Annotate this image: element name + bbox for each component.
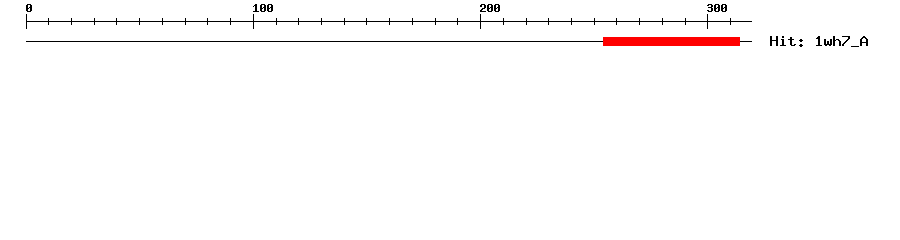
ruler label 200	[480, 4, 500, 12]
ruler label 300	[707, 4, 727, 12]
major tick 300	[707, 14, 708, 29]
ruler label 100	[253, 4, 273, 12]
minor ticks every 10 residues	[48, 18, 731, 25]
red hit segment (residues 254-314)	[603, 37, 740, 46]
background	[0, 0, 900, 60]
hit alignment line	[26, 41, 752, 42]
major tick 100	[253, 14, 254, 29]
ruler label 0	[26, 4, 32, 12]
major tick 200	[480, 14, 481, 29]
ruler axis line (query length 319)	[26, 21, 752, 22]
hit label text	[770, 36, 868, 47]
major tick 0	[26, 14, 27, 29]
